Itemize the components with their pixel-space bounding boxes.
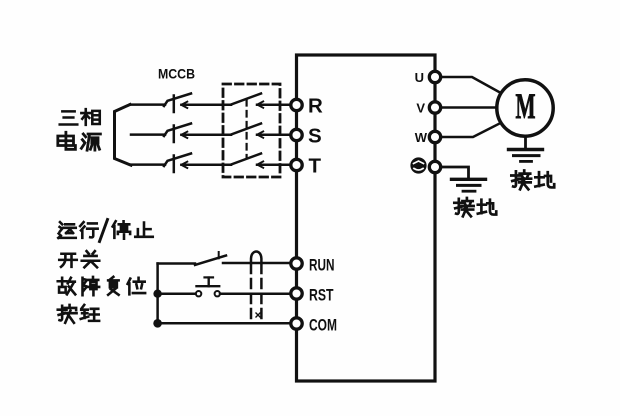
motor M xyxy=(497,80,553,136)
switch run/stop S1 xyxy=(195,252,226,265)
contactor pole 2 xyxy=(231,124,263,138)
terminal R xyxy=(291,99,302,110)
label 接地 (ground) at PE xyxy=(454,198,496,216)
wire pushbutton to RST terminal xyxy=(220,292,290,295)
wire T phase from bracket to MCCB xyxy=(131,163,165,166)
svg-text:T: T xyxy=(309,155,322,178)
wire contactor to T terminal xyxy=(257,164,290,167)
wire COM xyxy=(158,322,290,325)
svg-text:R: R xyxy=(308,95,323,118)
wire contactor to S terminal xyxy=(257,134,290,137)
terminal U xyxy=(429,71,440,82)
contactor linkage dashed line xyxy=(246,100,248,158)
svg-text:U: U xyxy=(415,70,424,85)
svg-text:RUN: RUN xyxy=(309,256,335,275)
wire MCCB to contactor S xyxy=(182,134,232,137)
label 运行/停止 (run/stop) xyxy=(58,220,153,242)
terminal V xyxy=(429,102,440,113)
contactor KM dashed box xyxy=(223,84,280,177)
ground at PE xyxy=(452,179,486,191)
breaker MCCB pole 3 xyxy=(164,154,191,173)
terminal RST xyxy=(291,288,302,299)
wire contactor to R terminal xyxy=(257,104,290,107)
ground below motor xyxy=(509,150,543,162)
junction rail-COM xyxy=(153,319,162,328)
bracket three-phase xyxy=(115,105,132,166)
svg-text:V: V xyxy=(416,100,425,115)
label 开关 (switch) xyxy=(59,251,99,267)
wire rail to switch xyxy=(158,262,195,265)
label 故障复位 (fault reset) xyxy=(58,277,145,295)
terminal S xyxy=(291,129,302,140)
label 三相 (three-phase) xyxy=(60,109,100,125)
svg-text:COM: COM xyxy=(309,316,337,335)
label 接地 (ground) at motor xyxy=(511,170,554,189)
terminal PE xyxy=(429,161,440,172)
label 按钮 (button) xyxy=(58,305,99,323)
svg-text:MCCB: MCCB xyxy=(158,66,195,82)
wire PE to ground xyxy=(442,167,469,178)
junction rail-RST xyxy=(153,290,161,298)
inverter box U1 xyxy=(297,55,436,381)
CJK text groups xyxy=(58,109,554,323)
wire R phase from bracket to MCCB xyxy=(130,103,165,106)
wire S phase from bracket to MCCB xyxy=(131,133,165,136)
breaker MCCB pole 2 xyxy=(164,124,191,143)
wire V to motor xyxy=(442,106,497,109)
svg-text:S: S xyxy=(308,125,322,148)
wire motor to ground xyxy=(524,138,527,148)
terminal RUN xyxy=(291,258,302,269)
terminal T xyxy=(291,159,302,170)
PE circled earth symbol xyxy=(412,159,426,173)
wire U to motor xyxy=(442,77,500,93)
wire rail left of RUN/RST/COM xyxy=(156,264,159,324)
label 电源 (power) xyxy=(58,132,101,150)
wire MCCB to contactor R xyxy=(182,104,232,107)
svg-text:RST: RST xyxy=(309,286,334,305)
contactor pole 3 xyxy=(231,154,263,168)
wire W to motor xyxy=(442,123,501,137)
terminal W xyxy=(429,131,440,142)
wire switch to RUN terminal xyxy=(223,262,290,265)
shielded cable arch xyxy=(251,252,261,318)
svg-text:M: M xyxy=(516,86,536,126)
wire MCCB to contactor T xyxy=(182,164,232,167)
terminal COM xyxy=(291,318,302,329)
breaker MCCB pole 1 xyxy=(164,94,191,113)
pushbutton S2 reset xyxy=(196,277,220,296)
contactor pole 1 xyxy=(231,94,263,108)
wire rail to pushbutton xyxy=(158,292,196,295)
svg-text:W: W xyxy=(415,130,428,145)
